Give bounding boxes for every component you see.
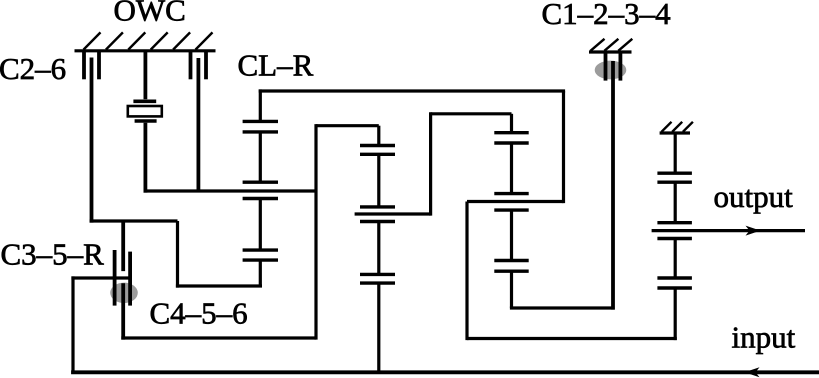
gear mesh plates (lower) bbox=[360, 274, 395, 283]
wire: OWC shaft to ring (y191) bbox=[144, 189, 317, 192]
clutch (OWC outer race) right plates bbox=[191, 51, 207, 80]
wire: vertical x316 bbox=[314, 124, 317, 340]
gear mesh plates (output lower) bbox=[657, 278, 692, 288]
svg-text:input: input bbox=[732, 320, 796, 355]
wire: input rail with arrow bbox=[71, 367, 819, 377]
wire: rear column stem bbox=[510, 114, 513, 133]
wire: horizontal y286 to C4-5-6 stem bbox=[176, 284, 262, 287]
wire: horizontal y338 left segment bbox=[121, 336, 316, 339]
gear mesh plates (rear middle) bbox=[494, 194, 528, 211]
clutch C4-5-6 plates bbox=[243, 250, 278, 260]
wire: input riser bbox=[71, 276, 74, 374]
svg-text:C2–6: C2–6 bbox=[0, 51, 66, 86]
housing C1-2-3-4 (hatched ground) bbox=[589, 39, 632, 52]
gear mesh plates (output middle) bbox=[657, 223, 692, 239]
wire: output column stem bbox=[674, 133, 677, 173]
svg-text:C4–5–6: C4–5–6 bbox=[150, 296, 248, 331]
clutch C3-5-R outer plates bbox=[115, 250, 131, 306]
svg-text:OWC: OWC bbox=[114, 0, 186, 28]
svg-text:CL–R: CL–R bbox=[238, 48, 314, 83]
shaded dot on clutch C3-5-R bbox=[110, 283, 138, 303]
wire: drop to C3-5-R middle plate bbox=[121, 221, 125, 271]
shaded dot on brake C1-2-3-4 bbox=[595, 61, 627, 80]
wire: CL-R column stem bbox=[259, 132, 262, 182]
one-way clutch OWC element bbox=[128, 51, 162, 193]
wire: vertical x467 down bbox=[465, 202, 468, 341]
wire: C2-6 shaft horizontal (y221) bbox=[90, 219, 178, 222]
wire: C3-5-R lower shaft bbox=[121, 283, 125, 339]
clutch C2-6 outer plates bbox=[84, 51, 99, 80]
wire: stem down bbox=[510, 271, 513, 308]
clutch pair (ring/OWC) plates bbox=[243, 182, 278, 198]
brake C1-2-3-4 middle plate / shaft bbox=[611, 61, 615, 310]
wire: horizontal y308 bbox=[510, 306, 615, 309]
wire: stem bbox=[377, 154, 380, 207]
wire: stem bbox=[674, 182, 677, 223]
svg-text:C3–5–R: C3–5–R bbox=[1, 237, 105, 272]
gear mesh plates (output top) bbox=[657, 173, 692, 182]
wire: stem bbox=[377, 222, 380, 275]
clutch CL-R plates bbox=[243, 121, 278, 131]
housing OWC (hatched ground) bbox=[75, 32, 216, 50]
clutch CL-R column top corner wire bbox=[259, 89, 262, 121]
wire: stem to y338 rail bbox=[674, 288, 677, 340]
wire: horizontal y113.8 bbox=[431, 112, 512, 115]
svg-text:C1–2–3–4: C1–2–3–4 bbox=[542, 0, 672, 31]
wire: horizontal y278 into C3-5-R bbox=[71, 276, 130, 279]
housing output column (hatched ground) bbox=[660, 122, 693, 133]
wire: horizontal y125.7 bbox=[316, 124, 379, 127]
gear mesh plates (front planetary) bbox=[360, 146, 395, 155]
wire: column stem bbox=[259, 199, 262, 251]
wire: middle line y214 bbox=[355, 212, 431, 215]
clutch (OWC outer race) middle plate / shaft bbox=[196, 58, 200, 191]
wire: stem bbox=[510, 210, 513, 260]
gear mesh plates (middle) bbox=[360, 207, 395, 222]
gear mesh plates (rear lower) bbox=[494, 261, 528, 272]
wire: stem bbox=[510, 143, 513, 194]
wire: drop x177.5 bbox=[176, 221, 179, 288]
clutch C2-6 middle plate / shaft bbox=[90, 58, 94, 223]
gear mesh plates (rear top) bbox=[494, 133, 528, 143]
wire: vertical x563.5 bbox=[562, 91, 565, 203]
wire: horizontal y338.5 right segment bbox=[467, 337, 677, 340]
wire: middle line y201.5 bbox=[467, 200, 564, 203]
wire: vertical x430.6 bbox=[429, 112, 432, 215]
wire: stem to input rail bbox=[377, 283, 380, 372]
wire: gear column stem bbox=[377, 126, 380, 146]
wire: stem bbox=[674, 239, 677, 279]
wire: column stem bottom bbox=[259, 260, 262, 286]
wire: output line with arrow bbox=[652, 226, 805, 236]
svg-text:output: output bbox=[714, 179, 794, 214]
brake C1-2-3-4 plates bbox=[606, 52, 621, 81]
